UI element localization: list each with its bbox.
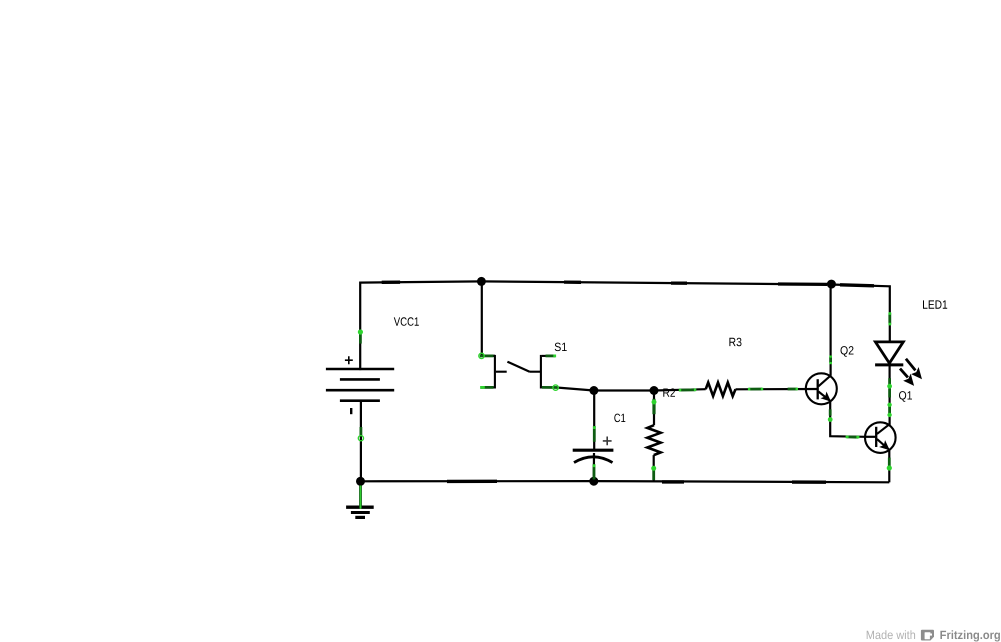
bright green marks [358, 312, 892, 471]
label R2 [663, 388, 675, 396]
wire Q2 emitter to Q1 base [830, 401, 865, 436]
wire top rail overlap c [671, 281, 687, 284]
label VCC1 [394, 317, 419, 326]
battery VCC1 [326, 356, 394, 414]
wire top rail overlap b [564, 280, 581, 283]
wire Q2 collector [829, 286, 831, 376]
wire top rail middle segment [481, 281, 831, 284]
junction node R2 [650, 386, 659, 395]
resistor R2 [647, 425, 660, 455]
label S1 [555, 343, 567, 352]
wire bottom rail overlap0 [447, 480, 497, 484]
wire Q1 emitter to bottom rail [888, 450, 890, 482]
junction node ground [356, 477, 365, 486]
wire node R2 to R3 [654, 389, 706, 390]
label Q2 [841, 346, 854, 357]
wire C1 top lead [593, 391, 595, 450]
wire bottom rail overlap2 [792, 480, 826, 484]
wire switch to node S1C1 [557, 388, 594, 391]
green connection marks [360, 313, 889, 480]
ground [346, 507, 374, 517]
wire R2 bottom lead [653, 455, 655, 482]
label Q1 [899, 391, 912, 402]
wire bottom rail [361, 481, 890, 482]
label R3 [729, 338, 741, 347]
wire top rail left segment [360, 281, 481, 369]
junction node top2 [827, 280, 836, 289]
LED LED1 [875, 342, 921, 384]
wire C1 bottom lead [593, 453, 595, 481]
footer fritzing logo [921, 630, 934, 641]
wire junction1 drop to switch [482, 281, 495, 356]
label LED1 [923, 300, 947, 308]
transistor Q2 [806, 373, 837, 404]
wire top rail right segment [831, 285, 889, 341]
ground green wire [359, 486, 362, 509]
junction node C1 bottom [589, 477, 598, 486]
junction node top1 [477, 277, 486, 286]
wire top rail overlap e [840, 285, 874, 286]
transistor Q1 [865, 422, 896, 453]
wire battery negative lead [360, 401, 362, 481]
junction node S1C1 [589, 386, 598, 395]
switch S1 [481, 355, 558, 389]
wire Q1 collector to LED cathode [888, 366, 890, 426]
capacitor C1 [573, 437, 614, 463]
footer fritzing.org [940, 630, 1000, 641]
wire top rail overlap [382, 281, 400, 284]
label C1 [614, 414, 625, 423]
wire Q1 base lead [865, 436, 876, 438]
footer made with [867, 630, 915, 639]
wire R3 to Q2 base [736, 388, 818, 390]
wire R2 top lead [653, 391, 655, 426]
wire bottom rail overlap1 [662, 480, 684, 483]
wire top rail overlap d [778, 282, 827, 286]
wire node S1C1 to node R2 [594, 389, 654, 391]
resistor R3 [706, 383, 736, 397]
